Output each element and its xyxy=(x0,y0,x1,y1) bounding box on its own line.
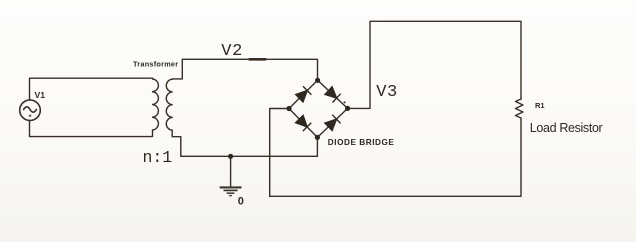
diode D2 top-right xyxy=(325,87,341,103)
voltage source V1 xyxy=(20,100,41,121)
inductor secondary winding xyxy=(166,79,172,130)
svg-text:DIODE BRIDGE: DIODE BRIDGE xyxy=(328,138,395,147)
node dot bridge right xyxy=(345,106,350,111)
wire bottom AC rail to bridge bottom xyxy=(181,155,318,157)
diode D3 bottom-left xyxy=(296,115,312,131)
wire V2 thick marker segment xyxy=(250,58,266,61)
wire V1 top to transformer primary xyxy=(30,78,153,100)
wire ground stem xyxy=(230,156,232,186)
wire bridge right node to top rail xyxy=(348,21,521,108)
resistor R1 zigzag xyxy=(516,99,524,118)
node dot bridge top xyxy=(315,78,320,83)
svg-text:V1: V1 xyxy=(35,90,46,100)
diode D4 bottom-right xyxy=(325,115,341,131)
svg-text:n:1: n:1 xyxy=(143,148,173,167)
wire resistor bottom to bottom rail xyxy=(270,118,521,196)
diode D1 top-left xyxy=(296,86,312,102)
svg-text:0: 0 xyxy=(238,196,244,208)
node dot bridge left xyxy=(286,106,291,111)
node dot bridge bottom xyxy=(315,135,320,140)
svg-text:Transformer: Transformer xyxy=(133,60,178,69)
wire bridge left node down to bottom rail xyxy=(270,109,289,197)
wire primary bottom to V1 xyxy=(30,121,153,137)
ground symbol bars xyxy=(220,187,242,195)
inductor primary winding xyxy=(153,79,159,130)
sine symbol xyxy=(24,107,37,112)
diode bridge frame xyxy=(289,80,348,137)
wire bridge bottom stub xyxy=(316,137,318,156)
wire V2 net horizontal xyxy=(182,59,317,80)
phase dot mark xyxy=(344,101,346,103)
junction dot ground xyxy=(228,154,233,159)
wire secondary bottom pin xyxy=(172,130,181,156)
polarity mark xyxy=(29,115,31,117)
svg-text:R1: R1 xyxy=(535,101,545,110)
wire secondary top pin to V2 net xyxy=(172,59,182,79)
svg-text:V3: V3 xyxy=(376,83,398,102)
svg-text:Load Resistor: Load Resistor xyxy=(530,121,603,135)
svg-text:V2: V2 xyxy=(221,42,243,61)
